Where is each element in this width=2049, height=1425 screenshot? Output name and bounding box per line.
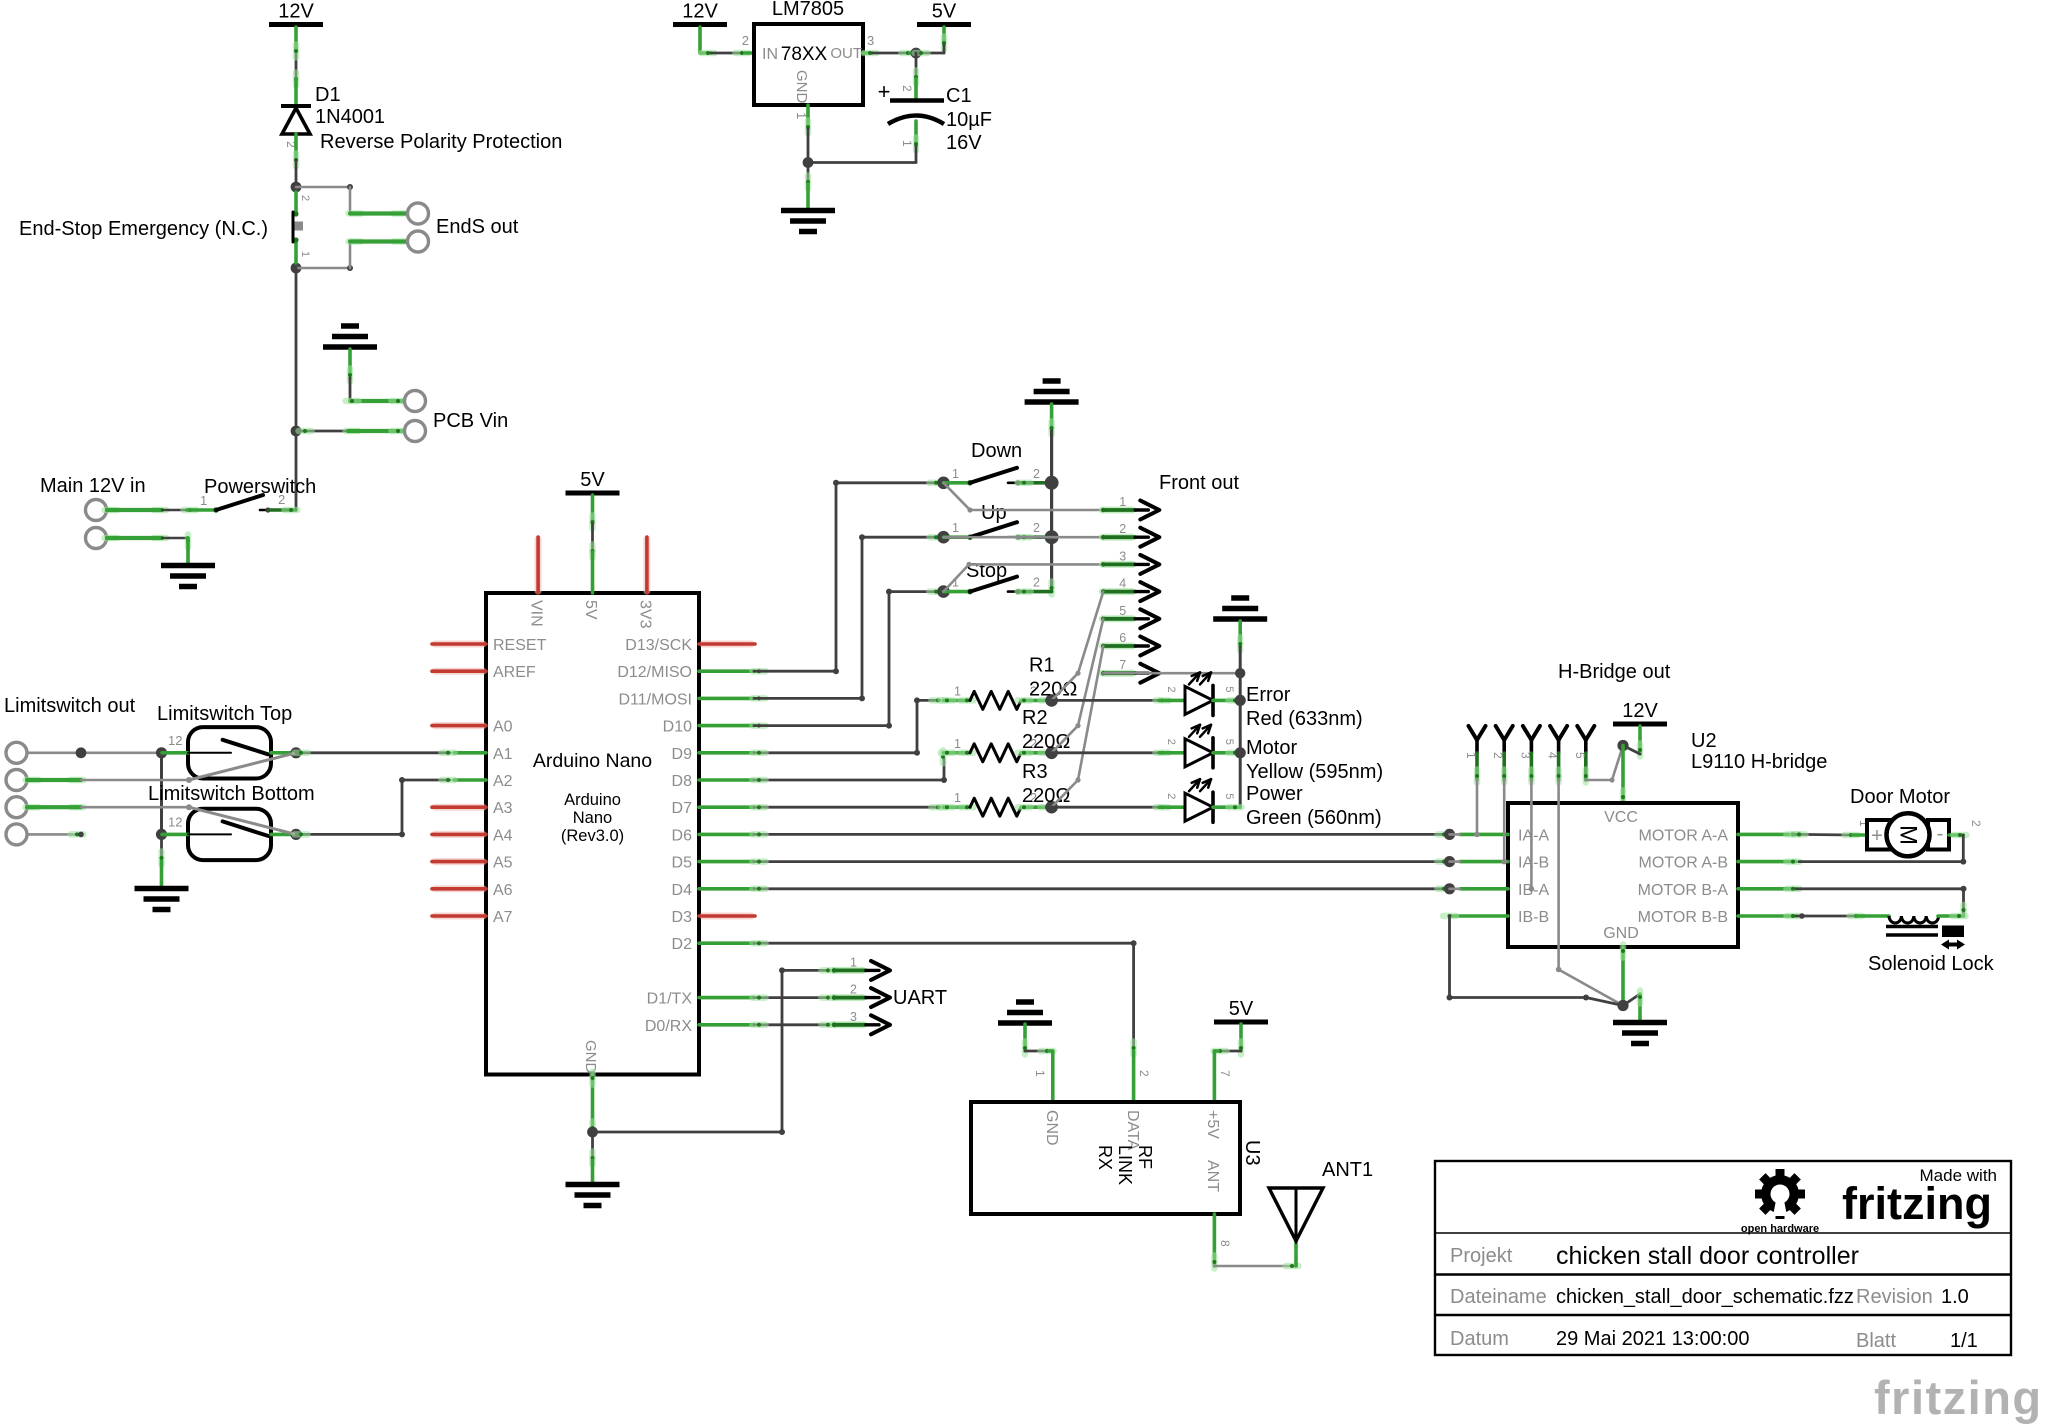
power flag 12V (main input) xyxy=(269,22,323,27)
svg-text:Up: Up xyxy=(981,502,1007,524)
wire MOTOR B-A to solenoid xyxy=(1796,889,1964,916)
inductor Solenoid Lock xyxy=(1796,915,1859,918)
wire D10 to Stop switch xyxy=(753,722,766,729)
svg-text:1N4001: 1N4001 xyxy=(315,106,385,128)
wire Arduino GND to ground xyxy=(591,1075,595,1133)
svg-text:A7: A7 xyxy=(493,909,513,926)
open hardware gear icon xyxy=(1755,1169,1805,1219)
pin Front out 5 xyxy=(1102,615,1132,622)
pin Front out 2 xyxy=(1102,534,1132,541)
wire D6 to H-bridge xyxy=(754,833,1450,836)
svg-text:End-Stop Emergency (N.C.): End-Stop Emergency (N.C.) xyxy=(19,218,268,240)
svg-text:D2: D2 xyxy=(672,936,693,953)
wire 12V to VCC xyxy=(1638,726,1642,754)
svg-text:GND: GND xyxy=(1043,1110,1060,1146)
switch Stop xyxy=(937,585,950,598)
svg-text:Yellow (595nm): Yellow (595nm) xyxy=(1246,761,1383,783)
pin D3 xyxy=(703,913,751,920)
diode D1 1N4001 xyxy=(281,104,311,108)
svg-text:D9: D9 xyxy=(672,746,693,763)
svg-text:U2: U2 xyxy=(1691,730,1717,752)
pin D12/MISO xyxy=(699,669,754,673)
wire out2 to Limitswitch Top blade xyxy=(26,777,39,784)
svg-text:1: 1 xyxy=(850,955,857,969)
resistor R3 220 xyxy=(944,805,971,809)
pin H-Bridge out 2 xyxy=(1496,726,1505,740)
ground (H-bridge) xyxy=(1613,1020,1667,1026)
svg-text:1/1: 1/1 xyxy=(1950,1330,1978,1352)
pin D6 xyxy=(699,833,754,837)
svg-text:A0: A0 xyxy=(493,719,513,736)
wire ground to U3 GND xyxy=(1023,1024,1027,1051)
connector EndS out xyxy=(408,203,429,224)
wire out2 to IA-B xyxy=(1503,780,1506,862)
wire end-stop to EndS out pin2 xyxy=(296,267,350,270)
svg-text:8: 8 xyxy=(1218,1240,1232,1247)
ground (Limitswitch) xyxy=(135,886,189,892)
svg-text:GND: GND xyxy=(793,70,810,104)
svg-text:2: 2 xyxy=(1969,820,1983,827)
svg-text:1: 1 xyxy=(954,684,961,698)
svg-text:1: 1 xyxy=(1464,752,1478,759)
switch Up xyxy=(937,531,950,544)
wire end-stop to EndS out pin1 xyxy=(296,186,350,189)
wire motor pin2 to MOTOR A-B xyxy=(1949,833,1963,837)
svg-text:-: - xyxy=(1937,823,1944,845)
wire out3 to Limitswitch Bottom blade xyxy=(26,804,39,811)
svg-text:5V: 5V xyxy=(1229,998,1254,1020)
LED Error Red (633nm) xyxy=(1052,699,1159,702)
svg-text:Motor: Motor xyxy=(1246,737,1297,759)
svg-text:EndS out: EndS out xyxy=(436,216,519,238)
wire D12 to Down switch xyxy=(753,668,766,675)
IC U2 L9110 H-bridge xyxy=(1508,803,1738,947)
svg-text:1: 1 xyxy=(954,737,961,751)
wire IB-B to GND node xyxy=(1450,914,1509,918)
svg-text:6: 6 xyxy=(1119,631,1126,645)
svg-text:+5V: +5V xyxy=(1204,1110,1221,1139)
ground (Main 12V in) xyxy=(161,563,215,569)
svg-text:GND: GND xyxy=(1603,925,1639,942)
wire ground to buttons rail xyxy=(1050,404,1054,431)
svg-text:5V: 5V xyxy=(932,1,957,23)
svg-text:1.0: 1.0 xyxy=(1941,1286,1969,1308)
pin D5 xyxy=(699,860,754,864)
wire R2 to Front out 5 xyxy=(1052,619,1104,753)
pin A5 xyxy=(435,858,483,865)
pin H-Bridge out 1 xyxy=(1469,726,1478,740)
svg-text:M: M xyxy=(1895,825,1922,845)
svg-text:D12/MISO: D12/MISO xyxy=(617,664,692,681)
pin D11/MOSI xyxy=(699,697,754,701)
svg-text:5: 5 xyxy=(1573,752,1587,759)
svg-text:A3: A3 xyxy=(493,800,513,817)
svg-text:1: 1 xyxy=(299,251,311,257)
svg-text:5: 5 xyxy=(1223,793,1235,799)
wire out1 to IA-A xyxy=(1476,780,1479,834)
svg-text:IB-B: IB-B xyxy=(1518,909,1549,926)
pin AREF xyxy=(435,668,483,675)
svg-text:Power: Power xyxy=(1246,783,1303,805)
ground (buttons) xyxy=(1043,378,1061,384)
pin D8 xyxy=(699,778,754,782)
wire 5V node to C1 xyxy=(915,53,918,79)
wire 12V to D1 xyxy=(294,27,298,51)
pin 3V3 (unconnected) xyxy=(643,539,650,591)
svg-text:Reverse Polarity Protection: Reverse Polarity Protection xyxy=(320,131,562,153)
LED Power Green (560nm) xyxy=(1052,806,1159,809)
svg-text:ANT: ANT xyxy=(1204,1160,1221,1192)
wire out3 to IB-A xyxy=(1530,780,1533,889)
IC Arduino Nano xyxy=(486,593,699,1075)
ground (RF module) xyxy=(1016,999,1034,1005)
svg-text:Blatt: Blatt xyxy=(1856,1330,1896,1352)
svg-text:Solenoid Lock: Solenoid Lock xyxy=(1868,953,1995,975)
wire 5V to U3 +5V xyxy=(1239,1024,1243,1051)
svg-text:Arduino: Arduino xyxy=(564,791,621,809)
wire D9 to R1 xyxy=(754,700,940,752)
svg-text:fritzing: fritzing xyxy=(1842,1178,1992,1229)
LED Motor Yellow (595nm) xyxy=(1052,751,1159,754)
wire LM7805 OUT to 5V node xyxy=(863,51,872,55)
svg-text:D8: D8 xyxy=(672,773,693,790)
svg-text:VIN: VIN xyxy=(528,600,545,627)
resistor R1 220 xyxy=(944,699,971,703)
svg-text:L9110 H-bridge: L9110 H-bridge xyxy=(1691,751,1827,773)
svg-text:10µF: 10µF xyxy=(946,109,992,131)
svg-text:78XX: 78XX xyxy=(781,44,828,65)
svg-text:OUT: OUT xyxy=(830,45,862,62)
svg-text:D11/MOSI: D11/MOSI xyxy=(619,691,693,708)
pin D9 xyxy=(699,751,754,755)
connector Main 12V in xyxy=(86,500,107,521)
svg-text:Nano: Nano xyxy=(573,809,612,827)
pin D4 xyxy=(699,887,754,891)
svg-text:Revision: Revision xyxy=(1856,1286,1933,1308)
svg-text:5V: 5V xyxy=(582,600,599,620)
pin Front out 3 xyxy=(1102,561,1132,568)
svg-text:D6: D6 xyxy=(672,827,693,844)
wire Front out 7 to LED rail xyxy=(1103,672,1240,675)
svg-text:Arduino Nano: Arduino Nano xyxy=(533,750,652,772)
svg-text:A1: A1 xyxy=(493,746,513,763)
wire D5 to H-bridge xyxy=(754,860,1450,863)
svg-text:Limitswitch Top: Limitswitch Top xyxy=(157,703,292,725)
svg-text:1: 1 xyxy=(1119,495,1126,509)
svg-text:RESET: RESET xyxy=(493,637,547,654)
svg-text:1: 1 xyxy=(900,140,914,147)
svg-text:+: + xyxy=(878,79,891,104)
svg-text:A4: A4 xyxy=(493,827,513,844)
svg-text:IA-B: IA-B xyxy=(1518,855,1549,872)
svg-text:D1: D1 xyxy=(315,84,341,106)
svg-text:2: 2 xyxy=(1165,793,1177,799)
svg-text:R2: R2 xyxy=(1022,707,1048,729)
svg-text:1: 1 xyxy=(794,112,809,119)
wire LM7805 GND to ground xyxy=(806,105,810,129)
pin UART 1 xyxy=(754,996,830,999)
pin A7 xyxy=(435,913,483,920)
svg-text:Error: Error xyxy=(1246,684,1291,706)
svg-text:2: 2 xyxy=(1033,521,1040,535)
wire U2 GND to ground xyxy=(1621,947,1625,1006)
pin Front out 7 xyxy=(1102,670,1132,677)
svg-text:R1: R1 xyxy=(1029,654,1055,676)
svg-text:2: 2 xyxy=(278,492,285,507)
power flag 12V (LM7805 in) xyxy=(673,22,727,27)
pin IB-A xyxy=(1460,887,1508,891)
wire Limitswitch pin1 rail xyxy=(27,751,162,754)
pin D1/TX xyxy=(699,996,754,1000)
pin A0 xyxy=(435,722,483,729)
svg-text:D13/SCK: D13/SCK xyxy=(625,637,692,654)
svg-text:ANT1: ANT1 xyxy=(1322,1159,1373,1181)
pin MOTOR A-A xyxy=(1738,833,1796,837)
pin A2 xyxy=(454,778,486,782)
svg-text:3V3: 3V3 xyxy=(637,600,654,629)
wire out5 to VCC node xyxy=(1586,746,1623,781)
connector PCB Vin xyxy=(405,391,426,412)
svg-text:open hardware: open hardware xyxy=(1741,1223,1819,1235)
power flag 12V (H-bridge) xyxy=(1613,722,1667,727)
svg-text:4: 4 xyxy=(1546,752,1560,759)
wire D1 to end-stop switch xyxy=(294,134,298,160)
svg-text:fritzing: fritzing xyxy=(1874,1371,2043,1424)
svg-text:1: 1 xyxy=(200,493,207,508)
pin VIN (unconnected) xyxy=(535,539,542,591)
wire out4 stub xyxy=(27,833,81,836)
svg-text:D3: D3 xyxy=(672,909,693,926)
svg-text:2: 2 xyxy=(1033,576,1040,590)
wire out4 to GND node xyxy=(1559,780,1623,1006)
pin Front out 6 xyxy=(1102,643,1132,650)
wire Main12V pin1 to Powerswitch xyxy=(105,507,118,514)
svg-text:29 Mai 2021 13:00:00: 29 Mai 2021 13:00:00 xyxy=(1556,1328,1750,1350)
pin IA-B xyxy=(1460,860,1508,864)
svg-text:PCB Vin: PCB Vin xyxy=(433,410,508,432)
pin D13/SCK xyxy=(703,641,751,648)
wire Arduino GND to UART 1 xyxy=(593,970,831,1132)
svg-text:12: 12 xyxy=(168,814,182,829)
pin RESET xyxy=(435,641,483,648)
wire D8 to R2 xyxy=(754,759,944,780)
pin A1 xyxy=(454,751,486,755)
svg-text:D10: D10 xyxy=(663,719,692,736)
svg-text:3: 3 xyxy=(867,33,874,48)
svg-text:D4: D4 xyxy=(672,882,693,899)
pin A6 xyxy=(435,885,483,892)
pin MOTOR B-B xyxy=(1738,914,1796,918)
svg-text:Main 12V in: Main 12V in xyxy=(40,475,146,497)
svg-text:5: 5 xyxy=(1223,739,1235,745)
svg-text:7: 7 xyxy=(1119,658,1126,672)
svg-text:12V: 12V xyxy=(1622,700,1658,722)
node 5V junction xyxy=(911,48,922,59)
wire R1 to Front out 4 xyxy=(1052,592,1104,701)
power flag 5V (RF module) xyxy=(1214,1020,1268,1025)
pin UART 2 xyxy=(833,994,863,1001)
switch Down xyxy=(937,477,950,490)
svg-text:2: 2 xyxy=(1137,1070,1151,1077)
svg-text:H-Bridge out: H-Bridge out xyxy=(1558,661,1671,683)
solenoid plunger xyxy=(1942,926,1964,938)
svg-text:Datum: Datum xyxy=(1450,1328,1509,1350)
ground (PCB Vin) xyxy=(341,323,359,329)
svg-text:U3: U3 xyxy=(1241,1140,1263,1166)
svg-text:R3: R3 xyxy=(1022,761,1048,783)
wire rail to ground xyxy=(160,834,163,861)
svg-text:2: 2 xyxy=(1033,467,1040,481)
switch End-Stop Emergency (N.C.) xyxy=(291,182,302,193)
svg-text:Projekt: Projekt xyxy=(1450,1245,1513,1267)
svg-text:2: 2 xyxy=(1491,752,1505,759)
pin D2 xyxy=(699,941,754,945)
svg-text:12V: 12V xyxy=(278,1,314,23)
wire Main12V pin2 to ground xyxy=(105,535,118,542)
wire MOTOR A-A to motor pin1 xyxy=(1796,833,1852,836)
pin A4 xyxy=(435,831,483,838)
svg-text:1: 1 xyxy=(952,521,959,535)
svg-text:UART: UART xyxy=(893,987,947,1009)
wire Down to Front out 1 xyxy=(944,483,971,510)
svg-text:3: 3 xyxy=(1518,752,1532,759)
svg-text:D1/TX: D1/TX xyxy=(647,991,693,1008)
pin UART 3 xyxy=(833,1021,863,1028)
wire D7 to R3 xyxy=(754,806,940,809)
svg-text:7: 7 xyxy=(1218,1070,1232,1077)
power flag 5V (LM7805 out) xyxy=(917,22,971,27)
svg-text:16V: 16V xyxy=(946,132,982,154)
ground (LM7805) xyxy=(781,208,835,214)
svg-text:4: 4 xyxy=(1119,577,1126,591)
wire ground to PCB Vin pin1 xyxy=(348,349,352,378)
svg-text:chicken stall door controller: chicken stall door controller xyxy=(1556,1242,1859,1270)
IC U3 RF LINK RX xyxy=(971,1102,1240,1214)
svg-text:chicken_stall_door_schematic.f: chicken_stall_door_schematic.fzz xyxy=(1556,1286,1854,1308)
svg-text:(Rev3.0): (Rev3.0) xyxy=(561,827,624,845)
svg-text:A6: A6 xyxy=(493,882,513,899)
pin D10 xyxy=(699,724,754,728)
svg-text:1: 1 xyxy=(952,467,959,481)
solenoid core xyxy=(1886,925,1938,929)
svg-text:5: 5 xyxy=(1223,686,1235,692)
wire D2 to U3 DATA xyxy=(754,943,1134,1051)
ground (LEDs) xyxy=(1231,595,1249,601)
resistor R2 220 xyxy=(944,751,971,755)
svg-text:3: 3 xyxy=(1119,549,1126,563)
wire D4 to H-bridge xyxy=(754,887,1450,890)
solenoid motion arrow xyxy=(1945,943,1961,947)
svg-text:A2: A2 xyxy=(493,773,513,790)
pin H-Bridge out 3 xyxy=(1523,726,1532,740)
pin A3 xyxy=(435,804,483,811)
svg-text:Front out: Front out xyxy=(1159,472,1239,494)
wire 12V to LM7805 IN xyxy=(698,27,702,53)
svg-text:+: + xyxy=(1871,825,1883,847)
svg-text:A5: A5 xyxy=(493,855,513,872)
svg-text:VCC: VCC xyxy=(1604,809,1638,826)
svg-text:D7: D7 xyxy=(672,800,693,817)
wire Stop to Front out 3 xyxy=(944,564,970,591)
title block frame xyxy=(1435,1161,2011,1355)
svg-text:2: 2 xyxy=(299,195,311,201)
svg-text:3: 3 xyxy=(850,1010,857,1024)
svg-text:MOTOR B-B: MOTOR B-B xyxy=(1638,909,1728,926)
wire main to PCB Vin pin2 xyxy=(295,268,298,510)
svg-text:D5: D5 xyxy=(672,855,693,872)
svg-text:C1: C1 xyxy=(946,85,972,107)
power flag 5V (Arduino) xyxy=(566,491,620,496)
svg-text:Down: Down xyxy=(971,440,1022,462)
svg-text:2: 2 xyxy=(742,33,749,48)
pin D7 xyxy=(699,805,754,809)
wire ground to LED rail xyxy=(1238,621,1242,647)
wire Limitswitch Top to A1 xyxy=(296,751,450,754)
svg-text:1: 1 xyxy=(954,791,961,805)
svg-text:GND: GND xyxy=(582,1040,599,1074)
wire Up to Front out 2 xyxy=(944,536,1104,539)
svg-text:IN: IN xyxy=(762,46,778,63)
pin IA-A xyxy=(1460,833,1508,837)
svg-text:2: 2 xyxy=(1165,686,1177,692)
wire R3 to Front out 6 xyxy=(1052,646,1104,807)
wire Limitswitch Bottom to A2 xyxy=(296,780,450,834)
wire U3 ANT to antenna xyxy=(1213,1214,1217,1266)
svg-text:MOTOR A-A: MOTOR A-A xyxy=(1639,827,1729,844)
svg-text:D0/RX: D0/RX xyxy=(645,1018,692,1035)
svg-text:12V: 12V xyxy=(682,1,718,23)
svg-text:Red (633nm): Red (633nm) xyxy=(1246,708,1363,730)
wire C1 to GND rail xyxy=(914,121,918,146)
svg-text:5: 5 xyxy=(1119,604,1126,618)
pin MOTOR A-B xyxy=(1738,860,1796,864)
ground (Arduino) xyxy=(566,1182,620,1188)
pin Front out 1 xyxy=(1102,507,1132,514)
svg-text:2: 2 xyxy=(1119,522,1126,536)
pin H-Bridge out 4 xyxy=(1550,726,1559,740)
wire 5V flag to Arduino 5V pin xyxy=(591,495,595,524)
svg-text:12: 12 xyxy=(168,733,182,748)
svg-text:Green (560nm): Green (560nm) xyxy=(1246,807,1382,829)
regulator U1 LM7805 78XX xyxy=(754,24,863,105)
svg-text:IA-A: IA-A xyxy=(1518,827,1549,844)
svg-text:2: 2 xyxy=(900,85,914,92)
svg-text:2: 2 xyxy=(850,983,857,997)
pin H-Bridge out 5 xyxy=(1577,726,1586,740)
wire D11 to Up switch xyxy=(753,695,766,702)
svg-text:LM7805: LM7805 xyxy=(772,0,844,20)
svg-text:MOTOR B-A: MOTOR B-A xyxy=(1638,882,1729,899)
svg-text:AREF: AREF xyxy=(493,664,536,681)
svg-text:MOTOR A-B: MOTOR A-B xyxy=(1639,855,1729,872)
svg-text:2: 2 xyxy=(1165,739,1177,745)
svg-text:5V: 5V xyxy=(580,469,605,491)
svg-text:Door Motor: Door Motor xyxy=(1850,786,1950,808)
svg-text:1: 1 xyxy=(1033,1070,1047,1077)
svg-text:Dateiname: Dateiname xyxy=(1450,1286,1547,1308)
svg-text:Limitswitch out: Limitswitch out xyxy=(4,695,136,717)
pin Front out 4 xyxy=(1102,588,1132,595)
pin MOTOR B-A xyxy=(1738,887,1796,891)
svg-text:Limitswitch Bottom: Limitswitch Bottom xyxy=(148,783,315,805)
pin D0/RX xyxy=(699,1023,754,1027)
